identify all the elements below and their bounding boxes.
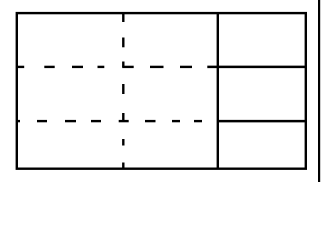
wire: dashed horizontal line 1 xyxy=(17,66,192,68)
wire: inner solid vertical divider xyxy=(217,13,219,169)
node A: outer rectangle frame xyxy=(17,13,306,169)
wire: dashed vertical line xyxy=(122,13,124,169)
wire: solid horizontal divider A (upper right column) xyxy=(207,66,305,69)
wire: dashed horizontal line 2 xyxy=(17,120,202,122)
wire: far-right vertical border line xyxy=(318,0,320,182)
wire: solid horizontal divider B (lower right column) xyxy=(218,120,306,123)
